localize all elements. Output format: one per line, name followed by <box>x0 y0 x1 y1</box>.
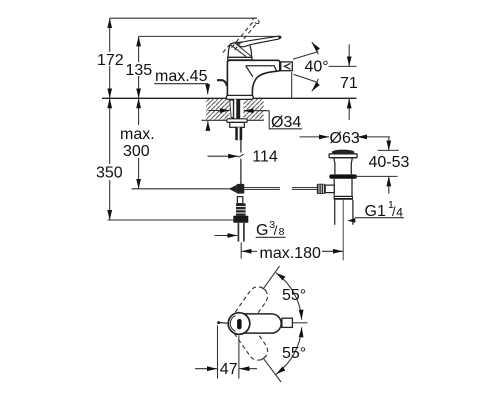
wire top extension line (172 level) <box>110 17 257 19</box>
waste side port knob <box>317 184 325 194</box>
waste pull knob on body <box>217 80 227 86</box>
swing ray top <box>264 266 280 288</box>
linkage rod to waste <box>244 187 317 190</box>
waste side port link <box>325 185 334 193</box>
dimension 172 <box>97 18 124 98</box>
top view: centre line <box>292 322 307 324</box>
top view: pin <box>218 322 228 325</box>
waste tailpipe <box>334 200 336 225</box>
dimension 350 <box>96 98 123 220</box>
swing arc lower <box>276 327 302 374</box>
raised handle dashed <box>223 17 260 53</box>
supply hoses <box>237 223 239 242</box>
dimension max.180 <box>242 245 343 262</box>
waste cap plate <box>329 154 357 158</box>
threaded connector <box>236 203 246 215</box>
waste cap dome <box>332 150 355 155</box>
svg-text:max.180: max.180 <box>260 245 321 262</box>
pull rod upper <box>240 140 242 152</box>
deck hatching left <box>206 99 230 120</box>
svg-text:114: 114 <box>252 149 278 166</box>
hex nut <box>233 216 248 223</box>
wire deck bottom line <box>202 119 264 121</box>
pull rod lower <box>240 159 242 185</box>
faucet base plate <box>226 95 253 99</box>
spout extension line <box>291 72 293 98</box>
wire 135 extension line <box>139 35 279 37</box>
lever handle <box>237 36 281 47</box>
linkage cross fitting <box>229 185 237 193</box>
dimension max.300 <box>120 98 155 189</box>
svg-text:G: G <box>256 222 268 239</box>
waste body <box>334 179 352 196</box>
dimension 40-53 <box>353 137 410 194</box>
pop-up waste: Ø63 dimension <box>300 130 391 147</box>
svg-text:300: 300 <box>123 143 150 160</box>
shank wedge <box>230 100 234 117</box>
faucet body outline <box>227 60 279 96</box>
top view: lever slot <box>237 319 242 329</box>
dimension 135 <box>126 36 153 98</box>
svg-text:350: 350 <box>96 165 123 182</box>
svg-text:40°: 40° <box>305 59 329 76</box>
label G 3/8 <box>215 219 286 239</box>
dimension 47 <box>195 326 257 379</box>
waste neck <box>334 158 352 174</box>
svg-text:max.45: max.45 <box>155 68 208 85</box>
washer <box>227 119 247 123</box>
swing ray bottom <box>264 359 282 382</box>
svg-text:55°: 55° <box>282 287 306 304</box>
top view: valve circle <box>228 313 250 335</box>
svg-text:max.: max. <box>120 126 155 143</box>
svg-text:55°: 55° <box>282 345 306 362</box>
faucet centre extension line <box>240 242 242 258</box>
top view: solid handle stadium <box>239 314 281 333</box>
mounting nut <box>230 122 245 127</box>
top view: dashed swung handle down <box>231 318 271 364</box>
label max.45 <box>154 68 208 128</box>
wire rod level extension line <box>132 188 231 190</box>
svg-text:Ø34: Ø34 <box>271 114 301 131</box>
waste bottom ring <box>334 196 353 200</box>
wire deck top line <box>102 97 357 99</box>
label diameter 34 <box>208 111 302 131</box>
hose nipple <box>237 197 242 204</box>
svg-text:172: 172 <box>97 52 124 69</box>
svg-text:71: 71 <box>340 75 358 92</box>
label G1 1/4 <box>347 199 404 223</box>
top view: spout tip <box>282 318 293 327</box>
swing tick bottom <box>261 356 267 360</box>
svg-text:8: 8 <box>279 226 285 238</box>
waste centre line <box>342 200 344 261</box>
deck hatching right <box>244 99 264 120</box>
top view: dashed swung handle up <box>231 283 271 329</box>
lever pivot block <box>228 42 252 57</box>
svg-text:47: 47 <box>220 361 238 378</box>
svg-text:/: / <box>274 223 278 238</box>
wire 350 bottom extension line <box>108 219 234 221</box>
svg-text:135: 135 <box>126 62 153 79</box>
dimension 71 <box>329 44 358 120</box>
faucet spout inner lines <box>246 66 277 77</box>
dimension 114 <box>208 149 278 166</box>
swing arc upper <box>276 273 302 320</box>
svg-text:40-53: 40-53 <box>369 154 410 171</box>
waste flange <box>329 174 357 178</box>
svg-text:Ø63: Ø63 <box>330 130 360 147</box>
mounting shank <box>232 99 240 119</box>
label 40 degrees <box>293 42 329 91</box>
aerator <box>281 62 293 71</box>
swing tick top <box>261 287 267 291</box>
threaded rod <box>235 127 242 140</box>
rod break tick <box>238 154 244 157</box>
